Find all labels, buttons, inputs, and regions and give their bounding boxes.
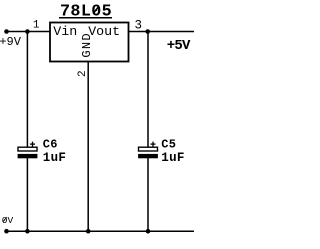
junction dot rail right	[146, 229, 151, 234]
svg-text:C5: C5	[161, 137, 176, 151]
svg-text:C6: C6	[43, 137, 58, 151]
node +9V terminal dot	[4, 29, 9, 34]
wire: input junction down to C6	[26, 32, 28, 148]
slash of zero in 0V	[3, 217, 7, 222]
svg-text:2: 2	[77, 70, 89, 77]
svg-text:Vin: Vin	[53, 24, 77, 39]
svg-text:1uF: 1uF	[43, 151, 66, 165]
svg-text:1uF: 1uF	[161, 151, 184, 165]
junction dot rail left	[25, 229, 30, 234]
svg-text:+5V: +5V	[167, 38, 191, 54]
svg-text:78L05: 78L05	[60, 3, 112, 22]
title underline	[59, 17, 112, 19]
junction dot at input	[25, 29, 30, 34]
svg-text:+9V: +9V	[0, 35, 22, 49]
svg-text:GND: GND	[80, 32, 94, 58]
capacitor C6	[18, 142, 38, 159]
op-amp U1 regulator body 78L05	[50, 23, 129, 62]
wire: C6 down to 0V rail	[26, 158, 28, 231]
wire: output junction down to C5	[147, 32, 149, 148]
svg-text:1: 1	[33, 19, 40, 31]
slash of zero in 78L05	[93, 6, 99, 13]
junction dot rail middle	[86, 229, 91, 234]
capacitor C5	[138, 142, 158, 159]
node 0V terminal dot	[4, 229, 9, 234]
wire: Vout to +5V rail	[129, 31, 195, 33]
junction dot at output	[145, 29, 150, 34]
wire: GND pin down to 0V rail	[87, 62, 89, 232]
wire: 0V ground rail	[7, 230, 195, 232]
svg-text:3: 3	[134, 19, 142, 33]
wire: C5 down to 0V rail	[147, 158, 149, 231]
wire: +9V terminal to Vin	[7, 31, 51, 33]
